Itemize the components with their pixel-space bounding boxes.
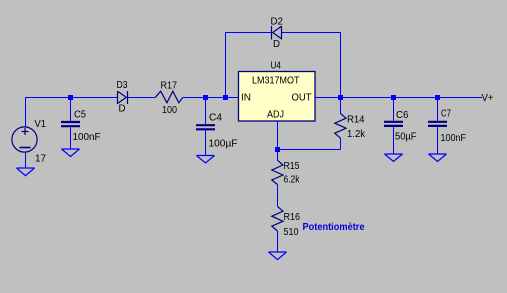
svg-text:510: 510 (284, 227, 299, 238)
svg-text:C6: C6 (396, 110, 409, 121)
svg-text:R16: R16 (284, 212, 301, 223)
wire C5 top lead (70, 97, 72, 121)
wire OUT pin to junction (315, 97, 341, 99)
wire R17 to IN pin (183, 97, 239, 99)
svg-text:U4: U4 (271, 61, 282, 72)
ground R16 (269, 252, 287, 260)
diode D3 (118, 91, 128, 104)
svg-text:C5: C5 (74, 110, 86, 121)
wire C5 to D3 anode (71, 97, 118, 99)
svg-text:D: D (119, 104, 126, 115)
wire D2 left riser (225, 33, 227, 98)
voltage source V1 (12, 127, 37, 152)
wire D3 to R17 (128, 97, 156, 99)
junction ADJ node (275, 147, 280, 152)
wire C5 bottom lead (70, 128, 72, 150)
wire D2 right riser (340, 32, 342, 97)
resistor R16 (272, 206, 283, 231)
svg-text:LM317MOT: LM317MOT (252, 76, 300, 87)
resistor R14 (335, 114, 346, 139)
ground C5 (62, 149, 80, 157)
junction C4 top (203, 95, 208, 100)
capacitor C4 (196, 125, 215, 129)
capacitor C5 (61, 122, 80, 126)
svg-text:C7: C7 (441, 109, 451, 120)
capacitor C6 (384, 122, 403, 126)
svg-text:R14: R14 (347, 115, 365, 126)
svg-text:R15: R15 (284, 161, 300, 172)
ground C6 (385, 154, 403, 162)
wire V1 top lead (25, 97, 27, 127)
wire ADJ node to R15 (277, 150, 279, 161)
svg-text:IN: IN (241, 93, 251, 104)
svg-text:100: 100 (162, 105, 177, 116)
wire R14 bottom lead (340, 138, 342, 149)
svg-text:6.2k: 6.2k (284, 175, 301, 186)
diode D2 (272, 26, 282, 40)
wire D2 top rail left (225, 32, 272, 34)
wire R14 top lead (340, 97, 342, 114)
wire C7 top lead (437, 97, 439, 121)
svg-text:D: D (273, 39, 280, 50)
ground C4 (197, 156, 215, 164)
wire C7 bottom lead (437, 127, 439, 154)
svg-text:100nF: 100nF (441, 133, 467, 144)
wire input rail V1 to C5 (25, 97, 71, 99)
junction C6 top (391, 95, 396, 100)
junction OUT node (338, 95, 343, 100)
svg-text:OUT: OUT (292, 93, 312, 104)
svg-text:D3: D3 (117, 80, 128, 91)
svg-text:R17: R17 (161, 81, 178, 92)
wire ADJ pin lead (277, 121, 279, 150)
ground V1 (17, 168, 35, 176)
wire R15 to R16 (277, 185, 279, 207)
svg-text:V1: V1 (35, 119, 47, 130)
svg-text:C4: C4 (209, 113, 222, 124)
wire C4 top lead (205, 97, 207, 124)
svg-text:50µF: 50µF (395, 132, 417, 143)
wire R14 to ADJ node (278, 149, 341, 151)
ground C7 (429, 154, 447, 162)
svg-text:17: 17 (35, 154, 46, 165)
resistor R17 (155, 91, 183, 103)
svg-text:100nF: 100nF (73, 132, 101, 143)
junction D2 branch (223, 95, 228, 100)
wire C6 bottom lead (393, 127, 395, 154)
regulator U4 body (239, 72, 316, 122)
junction C7 top (435, 95, 440, 100)
wire C6 top lead (393, 97, 395, 121)
wire D2 top rail right (282, 32, 341, 34)
resistor R15 (272, 160, 283, 184)
wire C4 bottom lead (205, 131, 207, 156)
capacitor C7 (428, 122, 447, 126)
svg-text:Potentiomètre: Potentiomètre (303, 222, 365, 233)
wire output rail (341, 97, 483, 99)
junction C5 top (68, 95, 73, 100)
wire V1 bottom lead (25, 153, 27, 169)
svg-text:1.2k: 1.2k (347, 129, 366, 140)
svg-text:ADJ: ADJ (267, 110, 284, 121)
svg-text:D2: D2 (271, 17, 284, 28)
svg-text:100µF: 100µF (209, 139, 238, 150)
svg-text:V+: V+ (482, 93, 494, 104)
wire R16 bottom lead (277, 231, 279, 252)
